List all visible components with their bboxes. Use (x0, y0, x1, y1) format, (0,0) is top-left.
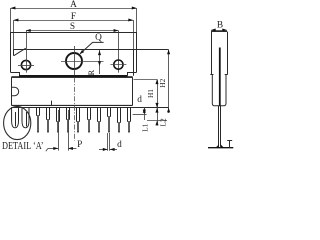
right mounting hole (114, 60, 123, 69)
seating baseline (208, 147, 233, 149)
svg-text:L2: L2 (158, 118, 167, 127)
detail balloon ellipse (4, 106, 31, 139)
side view upper left edge (211, 32, 213, 75)
pin base fillet right (221, 145, 224, 148)
svg-text:DETAIL ‘A’: DETAIL ‘A’ (2, 141, 44, 152)
dimension line L1 (143, 108, 146, 120)
left hole vertical centerline (26, 48, 28, 72)
case right upper edge (133, 50, 135, 76)
dimension line A (11, 6, 137, 9)
L2 reference line (147, 120, 167, 122)
leader line Q (80, 42, 103, 53)
H1 reference line (134, 79, 158, 81)
detail pin 2 enlarged (22, 108, 29, 128)
detail pin 1 inner tail (15, 112, 17, 127)
flange bottom-left notch (11, 73, 20, 76)
svg-text:B: B (217, 21, 223, 31)
case left upper edge (13, 50, 15, 56)
case top edge (extends right as H2 reference) (14, 49, 169, 51)
detail pin 1 enlarged (12, 108, 19, 128)
dimension line L2 (155, 108, 158, 126)
dimension line R (98, 50, 101, 74)
flange right edge (136, 32, 138, 72)
side view pin right line (220, 106, 222, 147)
svg-text:d: d (117, 140, 122, 150)
dimension line H2 (167, 50, 170, 114)
T mark vertical (229, 141, 231, 148)
d extension line left (107, 133, 109, 151)
side view upper right edge (227, 32, 229, 75)
dimension line P left segment (46, 147, 58, 151)
dimension line F (14, 18, 133, 21)
pin 10 (108, 108, 111, 134)
extension line F right (133, 20, 135, 50)
side view lower section (212, 75, 226, 106)
center hole vertical centerline (74, 46, 76, 76)
svg-text:S: S (70, 22, 75, 32)
side view flange/pin bar (219, 48, 221, 107)
case lower left edge (11, 77, 13, 105)
flange bottom-right notch (128, 73, 137, 76)
extension line S right / right hole centerline vertical (118, 31, 120, 73)
dimension line B (211, 28, 227, 31)
P extension line left (58, 110, 60, 151)
d extension line right (109, 133, 111, 151)
P extension line right (68, 110, 70, 151)
side view pin left line (218, 106, 220, 147)
pin 12 (128, 108, 131, 134)
svg-text:A: A (70, 0, 77, 10)
case chamfer (14, 48, 26, 56)
case lower right edge (132, 77, 134, 105)
flange bottom edge (19, 75, 128, 77)
dimension line P right segment (68, 147, 76, 150)
pin 6 (67, 108, 70, 134)
leader arrowhead Q (80, 50, 85, 54)
pin 7 (77, 108, 80, 134)
pin 5 (57, 108, 60, 134)
boss D mark on case left edge (12, 87, 19, 96)
tick mark above seating line (51, 101, 53, 106)
flange top edge (11, 32, 137, 34)
center hole Q (66, 53, 82, 69)
seating reference line (11, 107, 169, 109)
dimension line d left segment (99, 148, 108, 151)
pin base fillet left (216, 145, 219, 148)
dimension line d right segment (110, 148, 117, 151)
extension line A left (10, 8, 12, 32)
left mounting hole (21, 60, 30, 69)
pin 4 (47, 108, 50, 134)
extension line F left (13, 20, 15, 50)
detail pin 2 inner tail (26, 112, 28, 127)
dimension line H1 (155, 79, 158, 107)
case bottom edge (11, 104, 132, 106)
svg-text:L1: L1 (140, 123, 149, 132)
center hole horizontal centerline (61, 61, 104, 63)
svg-text:H1: H1 (146, 89, 155, 98)
svg-text:Q: Q (95, 33, 102, 43)
right hole horizontal centerline (110, 64, 126, 66)
side view step tick right (225, 74, 228, 76)
side view top edge (211, 31, 227, 33)
T mark horizontal (227, 140, 232, 142)
svg-text:R: R (87, 69, 96, 75)
svg-text:d: d (137, 95, 142, 105)
package vertical centerline dash-dot (74, 78, 76, 142)
svg-text:P: P (77, 140, 82, 150)
pin 9 (98, 108, 101, 134)
extension line S left (26, 31, 28, 49)
L1 reference line (133, 114, 147, 116)
dimension line S (26, 29, 118, 32)
side view step tick left (210, 74, 213, 76)
left hole horizontal centerline (18, 65, 34, 67)
case shelf line (11, 76, 132, 78)
svg-text:H2: H2 (158, 78, 167, 87)
pin 3 (37, 108, 40, 134)
pin 11 (118, 108, 121, 134)
flange left edge (10, 32, 12, 72)
pin 8 (88, 108, 91, 134)
extension line A right (136, 8, 138, 32)
svg-text:F: F (71, 12, 76, 22)
